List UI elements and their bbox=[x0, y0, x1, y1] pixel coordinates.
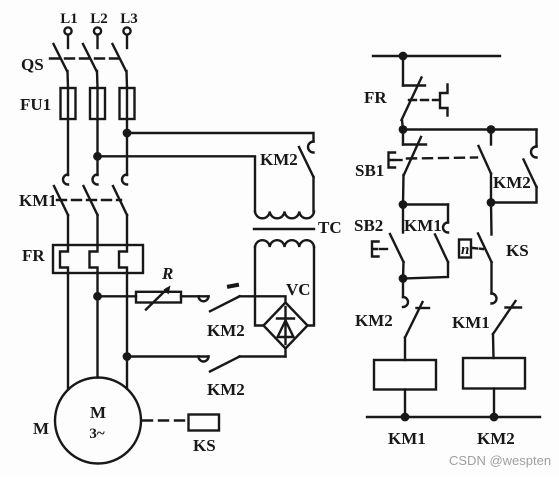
contactor KM2 NC interlock tick bbox=[417, 307, 430, 309]
contactor KM2 self-holding contact hook bbox=[535, 130, 537, 147]
svg-text:KM2: KM2 bbox=[207, 380, 245, 399]
wire L2 stub below terminal bbox=[96, 35, 98, 48]
wire junction to KM2 braking contact 2 bbox=[127, 355, 209, 357]
contactor KM1 main contact 3 blade bbox=[113, 186, 127, 215]
svg-text:KM2: KM2 bbox=[260, 150, 298, 169]
svg-text:SB1: SB1 bbox=[355, 161, 384, 180]
wire KM1 aux to node E bbox=[403, 262, 448, 279]
svg-text:KM2: KM2 bbox=[477, 429, 515, 448]
node C junction bbox=[400, 201, 406, 207]
node junction on L2 feeding braking resistor bbox=[94, 293, 100, 299]
contactor KM1 NC interlock hook bbox=[492, 294, 497, 304]
wire KM2 coil to bottom rail bbox=[493, 389, 495, 418]
contactor KM1 main contact 2 hook bbox=[93, 175, 98, 185]
ink artifact dash bbox=[229, 285, 237, 287]
thermal relay FR heater element 2 bbox=[90, 245, 98, 273]
node A junction bbox=[400, 126, 406, 132]
switch QS linkage dashed line bbox=[50, 57, 122, 59]
wire SB1 NO to node D bbox=[490, 174, 492, 203]
wire node A rail to KM2 branch bbox=[403, 128, 537, 130]
svg-text:KM2: KM2 bbox=[207, 321, 245, 340]
wire L2 KM1 to FR bbox=[96, 215, 98, 245]
thermal relay FR heater element 3 bbox=[119, 245, 127, 273]
node junction on L2 feeding transformer branch bbox=[94, 153, 100, 159]
node L2 terminal circle bbox=[94, 27, 101, 34]
control bottom rail bbox=[367, 416, 540, 418]
pushbutton SB1 actuator dash bbox=[396, 159, 402, 161]
switch QS pole 2 blade bbox=[83, 44, 97, 71]
contactor KM2 NC interlock blade bbox=[405, 302, 423, 338]
svg-text:FR: FR bbox=[364, 88, 387, 107]
wire L1 blade to fuse bbox=[66, 71, 69, 88]
wire KM2 contact 1 to rectifier plus bbox=[240, 296, 286, 302]
contactor KM2 transformer contact hook bbox=[308, 142, 314, 153]
fuse FU1 element 2 wire through bbox=[96, 88, 98, 175]
contactor KM1 NC interlock blade bbox=[493, 301, 516, 334]
svg-text:KS: KS bbox=[506, 241, 529, 260]
node L3 terminal circle bbox=[123, 27, 130, 34]
node B junction bbox=[488, 126, 494, 132]
svg-text:FU1: FU1 bbox=[20, 95, 51, 114]
wire secondary right to rectifier AC right bbox=[308, 247, 315, 326]
thermal relay FR box bbox=[53, 245, 143, 273]
node bottom rail junction KM2 bbox=[491, 414, 497, 420]
wire KM1 coil to bottom rail bbox=[404, 390, 406, 418]
contactor KM1 main contact 1 blade bbox=[54, 186, 68, 215]
fuse FU1 element 3 wire through bbox=[126, 88, 128, 175]
node E junction bbox=[400, 275, 406, 281]
wire L3 blade to fuse bbox=[125, 71, 128, 88]
contactor KM2 self-holding contact blade bbox=[524, 160, 537, 188]
svg-text:KM1: KM1 bbox=[19, 191, 57, 210]
thermal relay FR NC contact seat bbox=[403, 84, 425, 86]
wire rectifier minus to braking line bbox=[284, 349, 286, 357]
rectifier VC diode symbol bbox=[284, 307, 286, 344]
svg-text:VC: VC bbox=[286, 280, 311, 299]
switch QS pole 1 blade bbox=[54, 44, 68, 71]
contactor KM2 NC interlock hook bbox=[403, 297, 408, 307]
svg-text:KM1: KM1 bbox=[388, 429, 426, 448]
coil KM1 body bbox=[374, 360, 436, 390]
svg-text:L2: L2 bbox=[90, 11, 108, 27]
thermal relay FR reset bracket bbox=[440, 85, 448, 116]
resistor R adjustment arrow bbox=[146, 289, 167, 310]
wire L1 FR to motor bbox=[67, 273, 69, 390]
svg-text:L1: L1 bbox=[60, 11, 78, 27]
wire L3 FR to motor bbox=[126, 273, 128, 389]
wire SB2 to node E bbox=[402, 262, 405, 279]
node bottom rail junction KM1 bbox=[402, 414, 408, 420]
pushbutton SB1 linkage dashed line bbox=[407, 158, 477, 159]
svg-text:KM2: KM2 bbox=[493, 173, 531, 192]
svg-text:KM1: KM1 bbox=[452, 313, 490, 332]
node D junction bbox=[488, 199, 494, 205]
wire FR contact to node A bbox=[402, 120, 403, 130]
wire secondary left to rectifier AC left bbox=[255, 247, 264, 326]
pushbutton SB2 actuator bbox=[372, 242, 379, 257]
wire resistor to KM2 braking contact 1 bbox=[181, 295, 209, 297]
wire node D to KS contact bbox=[490, 203, 493, 235]
control supply rail top bbox=[373, 55, 500, 57]
contactor KM2 braking contact 1 hook bbox=[199, 296, 209, 301]
contactor KM2 braking contact 1 blade bbox=[210, 296, 240, 311]
pushbutton SB1 NC contact blade bbox=[404, 137, 421, 175]
wire KM2 self-holding to node D bbox=[491, 187, 537, 203]
svg-text:M: M bbox=[90, 403, 106, 422]
svg-text:QS: QS bbox=[21, 55, 44, 74]
svg-text:n: n bbox=[461, 242, 469, 258]
wire rail to FR contact bbox=[402, 56, 404, 86]
wire L1 KM1 to FR bbox=[67, 215, 69, 245]
contactor KM1 NC interlock tick bbox=[506, 306, 522, 308]
transformer TC secondary winding bbox=[255, 240, 314, 247]
fuse FU1 element 2 body bbox=[90, 88, 105, 119]
contactor KM2 transformer contact blade bbox=[299, 147, 314, 177]
speed relay KS contact dash bbox=[473, 248, 483, 249]
contactor KM1 main contact 2 blade bbox=[84, 186, 98, 215]
svg-text:M: M bbox=[33, 419, 49, 438]
transformer TC core bbox=[254, 228, 314, 230]
svg-text:SB2: SB2 bbox=[354, 216, 383, 235]
contactor KM1 main contact 1 hook bbox=[63, 175, 68, 185]
node L1 terminal circle bbox=[64, 27, 71, 34]
node junction on L3 feeding transformer branch bbox=[124, 130, 130, 136]
wire KS to KM1 NC contact bbox=[490, 262, 492, 294]
motor M circle bbox=[55, 378, 141, 464]
wire L1 stub below terminal bbox=[67, 35, 69, 48]
pushbutton SB1 NC contact seat bbox=[403, 143, 426, 145]
wire node E to KM2 NC contact bbox=[402, 279, 404, 298]
wire KM2 contact 2 to rectifier minus bbox=[240, 355, 286, 357]
contactor KM2 braking contact 2 blade bbox=[210, 357, 240, 372]
svg-text:KM2: KM2 bbox=[355, 311, 393, 330]
resistor R body bbox=[136, 292, 181, 303]
pushbutton SB2 NO contact blade bbox=[390, 234, 404, 262]
wire from L3 junction to KM2 contact at transformer bbox=[127, 133, 314, 142]
svg-text:FR: FR bbox=[22, 246, 45, 265]
pushbutton SB1 actuator bbox=[389, 153, 396, 168]
wire L2 blade to fuse bbox=[96, 71, 99, 88]
speed relay KS body bbox=[189, 415, 220, 431]
wire from L2 junction to transformer primary left bbox=[98, 156, 256, 211]
svg-text:L3: L3 bbox=[120, 11, 138, 27]
contactor KM1 auxiliary contact hook bbox=[447, 205, 449, 223]
contactor KM1 auxiliary contact blade bbox=[435, 235, 448, 263]
node control tap junction bbox=[400, 53, 406, 59]
coil KM2 body bbox=[463, 358, 525, 389]
fuse FU1 element 3 body bbox=[120, 88, 135, 119]
wire KM2 contact to transformer primary right bbox=[312, 177, 314, 212]
pushbutton SB1 NO contact blade (right branch) bbox=[490, 130, 492, 145]
svg-text:R: R bbox=[161, 264, 173, 283]
node junction on L3 feeding braking contact 2 bbox=[124, 353, 130, 359]
wire node C to SB2 bbox=[402, 205, 404, 233]
svg-text:CSDN @wespten: CSDN @wespten bbox=[449, 453, 551, 468]
fuse FU1 element 1 body bbox=[61, 88, 76, 119]
wire L3 KM1 to FR bbox=[126, 215, 128, 245]
wire SB1 to node C bbox=[402, 175, 405, 205]
dashed shaft link motor to speed relay KS bbox=[143, 419, 188, 421]
wire KM1 NC to KM2 coil bbox=[492, 334, 495, 358]
svg-text:TC: TC bbox=[318, 218, 342, 237]
wire node A to SB1 bbox=[402, 130, 404, 145]
wire KM2 NC to KM1 coil bbox=[404, 338, 406, 361]
thermal relay FR trip dashed link bbox=[409, 99, 438, 101]
contactor KM1 linkage dashed line bbox=[57, 199, 121, 201]
rectifier VC bridge diamond bbox=[264, 303, 308, 349]
transformer TC primary winding bbox=[255, 212, 314, 219]
speed relay KS contact blade bbox=[478, 234, 492, 263]
contactor KM2 braking contact 2 hook bbox=[199, 357, 209, 362]
wire L3 stub below terminal bbox=[126, 35, 128, 48]
switch QS pole 3 blade bbox=[113, 44, 127, 71]
wire junction to resistor R bbox=[98, 295, 137, 297]
svg-text:KS: KS bbox=[193, 436, 216, 455]
speed relay KS contact n box bbox=[459, 240, 471, 258]
svg-text:3~: 3~ bbox=[89, 426, 105, 442]
wire L2 FR to motor bbox=[96, 273, 98, 378]
svg-text:KM1: KM1 bbox=[404, 216, 442, 235]
fuse FU1 element 1 wire through bbox=[67, 88, 69, 175]
thermal relay FR NC contact blade bbox=[402, 78, 422, 121]
pushbutton SB2 actuator dash bbox=[380, 248, 387, 250]
wire node C to KM1 aux branch bbox=[403, 203, 448, 205]
contactor KM1 main contact 3 hook bbox=[122, 175, 127, 185]
thermal relay FR heater element 1 bbox=[60, 245, 68, 273]
